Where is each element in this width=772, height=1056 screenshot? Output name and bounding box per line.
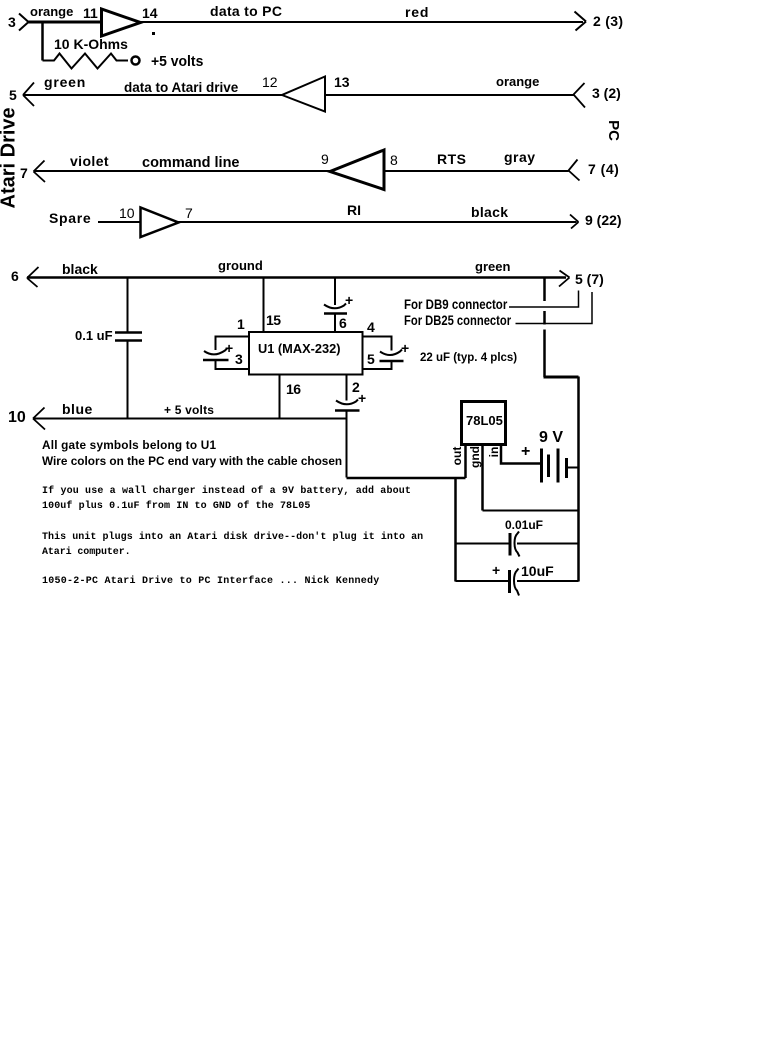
capacitor C7 10uF curved plate xyxy=(514,569,519,596)
arrowhead to PC pin 9 xyxy=(570,215,579,229)
resistor R1 10 K-Ohms zigzag xyxy=(43,54,129,69)
pin label 15 xyxy=(266,313,281,327)
wire regulator gnd lead xyxy=(481,445,484,511)
pin label 13 xyxy=(334,75,350,89)
wire RD output xyxy=(141,21,584,23)
label pin 7 xyxy=(20,166,28,180)
note For DB9 connector xyxy=(404,298,507,312)
wire +5 volts bus xyxy=(33,418,347,420)
wire 0.1uF drop from ground xyxy=(127,277,129,332)
note atari drive warning line 1 xyxy=(42,533,423,543)
polarity plus C2 xyxy=(345,293,353,307)
wire 0.01uF row xyxy=(456,543,579,545)
capacitor C7 10uF straight plate xyxy=(508,570,511,593)
IC label U1 (MAX-232) xyxy=(258,343,341,356)
pin label 3 xyxy=(235,352,243,366)
wire pin2 cap to V+ rail xyxy=(346,412,348,478)
capacitor C4 curved plate xyxy=(336,400,358,405)
net label data to Atari drive xyxy=(124,81,238,95)
wire command line left xyxy=(34,170,331,172)
pin label 16 xyxy=(286,382,301,396)
callout line DB25 xyxy=(516,292,593,324)
label + 5 volts xyxy=(164,404,214,416)
value label 0.1 uF xyxy=(75,329,113,342)
pin label 9 xyxy=(321,152,329,166)
stray dot xyxy=(152,32,155,35)
label pin 6 xyxy=(11,269,19,283)
note wall charger line 2 xyxy=(42,502,310,512)
op-amp gate U1A (pin 11 to 14) xyxy=(102,9,141,36)
label pin 5 xyxy=(9,88,17,102)
net label green xyxy=(44,75,86,89)
net label violet xyxy=(70,154,109,168)
net label RTS xyxy=(437,152,467,166)
connector pin 3 arrowhead (Atari side, line RD) xyxy=(19,14,29,31)
pin label 4 xyxy=(367,320,375,334)
wire resistor drop xyxy=(41,22,44,61)
wire jog from dashed drop to right rail xyxy=(544,376,579,379)
gate U1B (pin 13 to 12) pointing left xyxy=(282,77,325,112)
capacitor C3 curved plate xyxy=(380,350,402,356)
label PC rotated xyxy=(606,119,621,142)
note atari drive warning line 2 xyxy=(42,548,131,558)
wire 0.1uF to +5V line xyxy=(127,342,129,419)
wire line2 right xyxy=(325,94,574,96)
capacitor C6 0.01uF curved plate xyxy=(515,532,520,557)
note all gates xyxy=(42,440,216,452)
arrowhead to PC pin 5 (ground) xyxy=(559,271,570,287)
connector pin 6 arrowhead (ground line) xyxy=(27,267,39,287)
lead label in rotated xyxy=(488,446,500,458)
polarity plus C4 xyxy=(358,391,366,405)
wire dashed drop from ground arrow xyxy=(543,278,546,377)
net label blue xyxy=(62,402,93,416)
wire data to Atari drive left xyxy=(23,94,282,96)
pin label 7 xyxy=(185,206,193,220)
value label 10 K-Ohms xyxy=(54,37,128,51)
connector pin 7 arrowhead (Atari side, command line) xyxy=(34,161,46,183)
wire RTS right xyxy=(384,170,569,172)
label Spare xyxy=(49,211,91,225)
regulator label 78L05 xyxy=(466,414,503,427)
battery BT1 9V plates xyxy=(542,449,567,483)
wire pin2 drop xyxy=(346,375,348,401)
pin label 10 blue xyxy=(8,410,26,426)
callout line DB9 xyxy=(509,291,579,308)
pin label 12 xyxy=(262,75,278,89)
label pin 9 (22) xyxy=(585,213,622,227)
label pin 3 xyxy=(8,15,16,29)
wire pin16 to +5V xyxy=(279,375,281,419)
net label red xyxy=(405,5,429,19)
wire right rail vertical xyxy=(577,377,580,582)
arrowhead at PC pin 7 end pointing left xyxy=(569,160,580,181)
label pin 2 (3) xyxy=(593,14,623,28)
note wire colors xyxy=(42,456,342,468)
pin label 8 xyxy=(390,153,398,167)
net label orange xyxy=(30,5,73,18)
wire pin5 stub xyxy=(363,362,392,369)
label pin 3 (2) xyxy=(592,86,621,100)
capacitor C6 0.01uF straight plate xyxy=(509,533,512,556)
connector pin 10 arrowhead (blue +5V) xyxy=(33,408,45,430)
net label black xyxy=(62,262,98,276)
lead label out rotated xyxy=(451,446,463,466)
capacitor C2 curved plate xyxy=(324,304,346,309)
terminal circle +5 volts xyxy=(132,57,140,65)
wire RD input (thick) xyxy=(28,21,101,24)
pin label 6 xyxy=(339,316,347,330)
wire left filter rail xyxy=(454,478,457,582)
label Atari Drive rotated xyxy=(0,112,19,209)
gate U1C (pin 8 to 9) pointing left thick xyxy=(330,150,384,190)
capacitor C4 straight plate xyxy=(335,409,360,412)
net label gray xyxy=(504,150,536,164)
wire battery minus to right rail xyxy=(567,467,579,469)
value label 22 uF xyxy=(420,353,517,365)
polarity plus C7 xyxy=(492,563,500,577)
battery label 9 V xyxy=(539,430,563,446)
value label 0.01uF xyxy=(505,519,543,531)
wire ground bus xyxy=(27,276,566,279)
pin label 1 xyxy=(237,317,245,331)
pin label 11 xyxy=(83,6,98,20)
gate U1D (pin 10 to 7) xyxy=(141,208,179,238)
wire pin3 stub xyxy=(216,361,250,369)
pin label 2 xyxy=(352,380,360,394)
arrowhead at PC pin 3 end pointing left xyxy=(574,83,586,108)
title line xyxy=(42,577,380,587)
label pin 7 (4) xyxy=(588,162,619,176)
wire C2 to pin 6 xyxy=(334,315,336,333)
wire RI xyxy=(178,221,577,223)
arrowhead to PC pin 2 xyxy=(575,12,587,31)
wire regulator out lead xyxy=(464,445,467,479)
capacitor C3 straight plate xyxy=(380,360,404,363)
pin label 10 xyxy=(119,206,135,220)
polarity plus C1 xyxy=(225,341,233,355)
wire 10uF bottom row xyxy=(456,580,579,582)
capacitor C5 0.1uF plates xyxy=(115,333,142,341)
capacitor C1 curved plate xyxy=(204,349,227,355)
net label ground xyxy=(218,259,263,272)
lead label gnd rotated xyxy=(469,446,481,468)
wire pin15 ground to U1 xyxy=(263,277,265,332)
pin label 5 xyxy=(367,352,375,366)
battery polarity + xyxy=(521,444,530,460)
IC U1 MAX-232 box xyxy=(249,332,363,375)
wire regulator in lead xyxy=(501,445,540,464)
net label black right xyxy=(471,205,508,219)
connector pin 5 arrowhead (Atari side, line data to Atari drive) xyxy=(23,83,34,107)
capacitor C2 straight plate xyxy=(324,312,347,315)
note wall charger line 1 xyxy=(42,487,411,497)
wire V+ horizontal to regulator out xyxy=(347,477,466,480)
regulator U2 78L05 box xyxy=(462,402,506,445)
wire pin6 drop xyxy=(334,277,336,305)
net label orange right xyxy=(496,75,539,88)
note For DB25 connector xyxy=(404,314,511,328)
net label RI xyxy=(347,203,361,217)
wire pin4 stub xyxy=(363,337,392,351)
wire pin1 stub xyxy=(216,337,250,351)
net label command line xyxy=(142,156,240,171)
net label green right xyxy=(475,260,510,273)
label pin 5 (7) xyxy=(575,272,604,286)
wire spare input xyxy=(98,221,140,223)
pin label 14 xyxy=(142,6,158,20)
polarity plus C3 xyxy=(401,341,409,355)
wire gnd to right rail xyxy=(483,510,579,512)
value label 10uF xyxy=(521,564,554,578)
capacitor C1 straight plate xyxy=(203,359,229,362)
net label data to PC xyxy=(210,4,282,18)
label +5 volts xyxy=(151,54,203,69)
